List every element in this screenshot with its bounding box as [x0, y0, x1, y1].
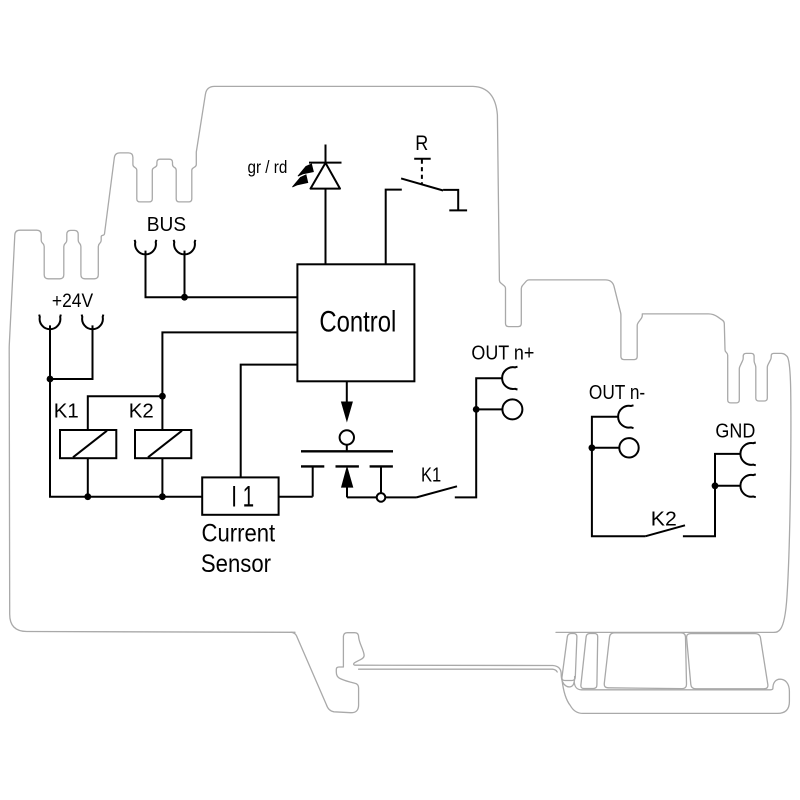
housing outline (terminal block body) — [9, 86, 791, 632]
connector node circle — [377, 493, 386, 502]
svg-text:K1: K1 — [421, 465, 441, 487]
svg-text:OUT n-: OUT n- — [589, 382, 645, 404]
terminal OUT n- top — [618, 405, 633, 428]
housing foot and DIN-rail clamp bar — [291, 632, 575, 713]
junction GND — [712, 482, 719, 489]
mosfet source leg — [312, 466, 314, 496]
terminal OUT n+ top — [502, 367, 517, 390]
junction BUS — [181, 294, 188, 301]
wire Control bottom — [346, 381, 348, 403]
svg-text:GND: GND — [715, 420, 755, 442]
pushbutton R — [414, 158, 431, 160]
junction OUT n+ — [473, 406, 480, 413]
junction K2 bottom — [159, 493, 166, 500]
terminal GND bottom — [740, 474, 755, 497]
gate drive circle — [340, 430, 354, 444]
ground bar of R — [449, 209, 467, 211]
arrow down — [341, 402, 352, 421]
wire OUT n- — [592, 417, 645, 537]
terminal BUS left — [135, 240, 157, 255]
svg-text:K2: K2 — [651, 508, 677, 530]
wire node to K1 contact — [385, 496, 416, 498]
terminal BUS right — [174, 240, 196, 255]
junction OUT n- — [589, 444, 596, 451]
svg-text:+24V: +24V — [52, 290, 93, 312]
svg-text:BUS: BUS — [147, 214, 186, 236]
svg-text:OUT n+: OUT n+ — [471, 343, 534, 365]
wire +24V left rail down — [50, 325, 202, 496]
wire branch to K1 coil — [88, 396, 163, 430]
DIN rail segment panels — [562, 634, 577, 681]
wire BUS left to Control — [146, 251, 298, 298]
contact K1 — [417, 486, 458, 497]
svg-text:Current: Current — [202, 520, 276, 548]
svg-text:I 1: I 1 — [231, 481, 254, 514]
svg-text:Control: Control — [319, 305, 396, 338]
wire Control to relay coils — [162, 332, 297, 430]
DIN rail outline — [562, 679, 789, 713]
terminal OUT n- bottom circle — [619, 438, 638, 457]
wire sensor to Control — [241, 365, 298, 478]
mosfet Q1 gate bar — [301, 450, 393, 452]
wire junction to circle — [476, 408, 502, 410]
wire +24V right — [50, 325, 93, 379]
svg-text:Sensor: Sensor — [201, 550, 271, 578]
control block U1 — [297, 264, 414, 381]
mosfet bulk arrow up — [342, 467, 353, 487]
wire bulk to node — [347, 496, 377, 498]
led D1 — [325, 145, 327, 163]
led light arrows — [298, 164, 314, 176]
junction +24V — [47, 376, 54, 383]
mosfet channel segments — [301, 465, 324, 467]
junction coil branch — [159, 393, 166, 400]
terminal +24V left — [39, 315, 61, 330]
wire BUS right — [184, 251, 186, 298]
wire K1 coil bottom — [87, 458, 89, 497]
svg-text:R: R — [415, 131, 428, 155]
svg-text:K1: K1 — [54, 400, 79, 422]
terminal OUT n+ bottom circle — [502, 399, 522, 419]
terminal +24V right — [82, 315, 104, 330]
junction K1 bottom — [84, 493, 91, 500]
mosfet drain leg — [380, 466, 382, 493]
terminal GND top — [740, 443, 755, 466]
contact K2 — [645, 525, 685, 536]
svg-text:gr / rd: gr / rd — [248, 157, 288, 177]
wire K2 coil bottom — [161, 458, 163, 497]
relay coil K2 — [135, 430, 191, 458]
current sensor block I1 — [202, 477, 278, 514]
svg-text:K2: K2 — [129, 400, 154, 422]
wire sensor to source — [279, 496, 313, 498]
relay coil K1 — [60, 430, 116, 458]
